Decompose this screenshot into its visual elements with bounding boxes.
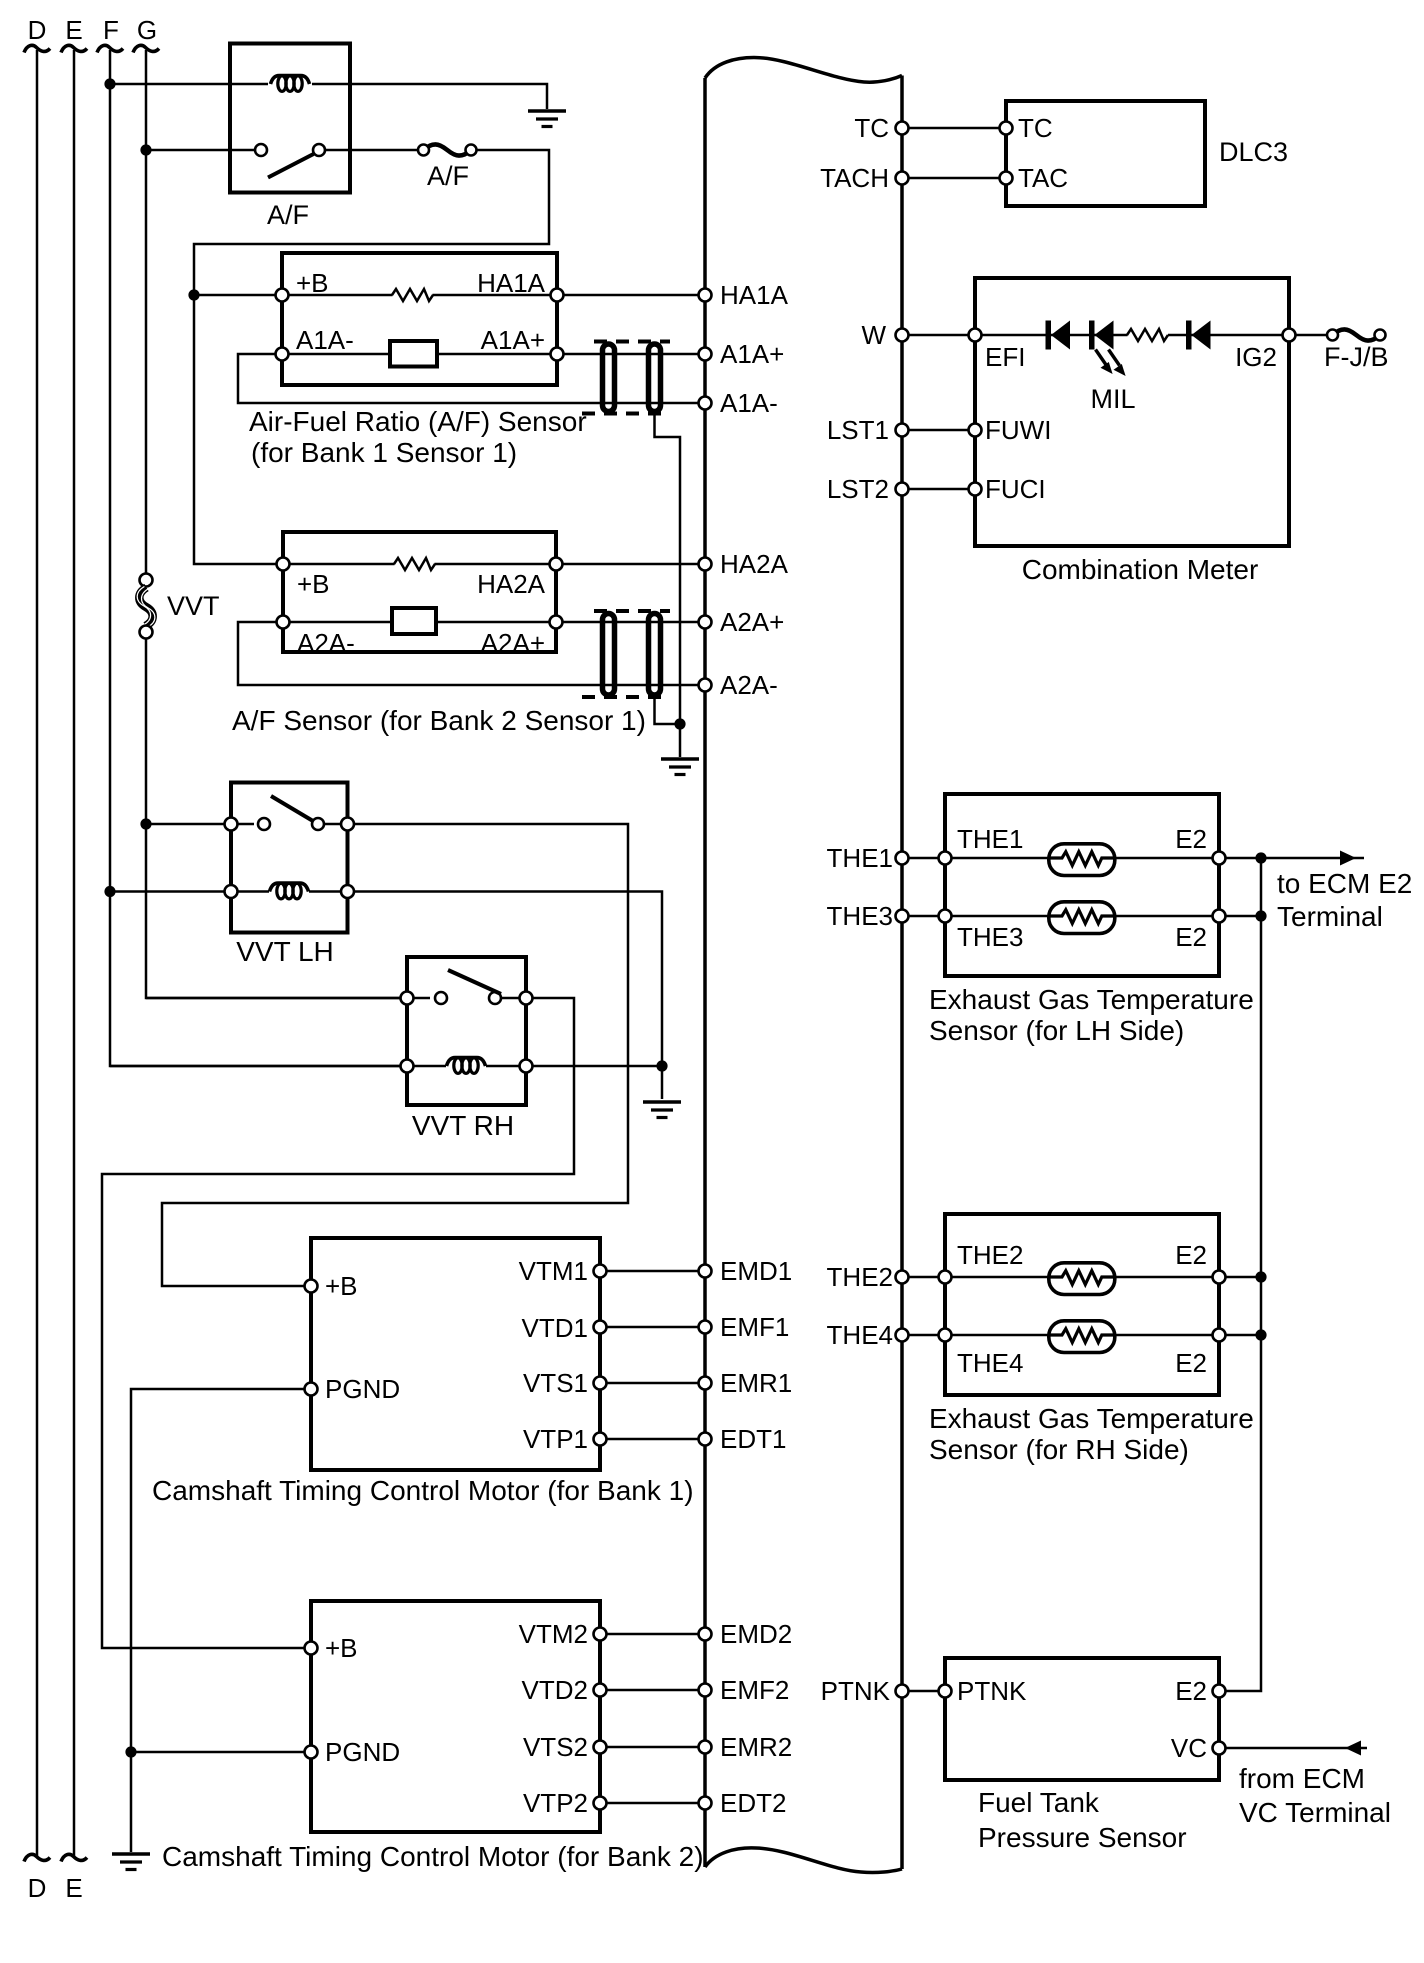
svg-text:G: G bbox=[137, 15, 157, 45]
motor1 PGND pin bbox=[305, 1383, 318, 1396]
svg-text:TACH: TACH bbox=[820, 163, 889, 193]
ground (motor PGND) bbox=[112, 1854, 150, 1870]
svg-text:EMR2: EMR2 bbox=[720, 1732, 792, 1762]
VVT break symbol on bus G bbox=[137, 574, 155, 639]
shield dashes bottom (bank1) bbox=[582, 412, 670, 416]
wire VVT LH switch to motor1 +B bbox=[162, 824, 628, 1286]
bank2 A2A- pin bbox=[277, 616, 290, 629]
wire bus D bbox=[36, 50, 39, 1857]
svg-text:EMD1: EMD1 bbox=[720, 1256, 792, 1286]
svg-text:PGND: PGND bbox=[325, 1374, 400, 1404]
DLC3 TC pin bbox=[1000, 122, 1013, 135]
bank2 heater resistor zigzag bbox=[394, 558, 435, 570]
svg-text:VTM1: VTM1 bbox=[519, 1256, 588, 1286]
RH sensor E2 pin (bottom) bbox=[1213, 1329, 1226, 1342]
VVT RH box bbox=[407, 957, 526, 1105]
wire THE2 to sensor bbox=[909, 1276, 946, 1279]
svg-text:THE3: THE3 bbox=[827, 901, 893, 931]
shield dashes top (bank2) bbox=[594, 609, 670, 613]
wire THE4 to sensor bbox=[909, 1334, 946, 1337]
svg-text:A1A+: A1A+ bbox=[720, 339, 784, 369]
wire VTP1 to EDT1 bbox=[607, 1438, 706, 1441]
break symbol on bus E (top) bbox=[61, 45, 87, 52]
wire VVT LH coil to right edge bbox=[309, 890, 342, 893]
wire VVT RH coil to ground junction bbox=[533, 1065, 663, 1068]
bank2 HA2A pin bbox=[550, 558, 563, 571]
ECM pin THE4 bbox=[896, 1329, 909, 1342]
wire RH E2 bottom to bus bbox=[1226, 1334, 1262, 1337]
shield dashes bottom (bank2) bbox=[582, 695, 670, 699]
RH THE4 wire bbox=[952, 1334, 1220, 1337]
fuel sensor PTNK pin bbox=[939, 1685, 952, 1698]
svg-text:Pressure Sensor: Pressure Sensor bbox=[978, 1822, 1187, 1853]
ECM pin W bbox=[896, 329, 909, 342]
meter resistor zigzag bbox=[1127, 329, 1168, 341]
svg-text:E2: E2 bbox=[1175, 1676, 1207, 1706]
wire LST1 to FUWI bbox=[909, 429, 976, 432]
svg-text:FUWI: FUWI bbox=[985, 415, 1051, 445]
svg-text:THE1: THE1 bbox=[827, 843, 893, 873]
svg-text:Fuel Tank: Fuel Tank bbox=[978, 1787, 1100, 1818]
break symbol on bus G (top) bbox=[133, 45, 159, 52]
svg-text:HA2A: HA2A bbox=[477, 569, 546, 599]
svg-text:F-J/B: F-J/B bbox=[1324, 342, 1389, 372]
wire G to relay switch bbox=[146, 149, 254, 152]
ECM pin HA1A bbox=[699, 289, 712, 302]
svg-text:HA2A: HA2A bbox=[720, 549, 789, 579]
junction RH E2 top bbox=[1255, 1271, 1266, 1282]
svg-text:A1A-: A1A- bbox=[720, 388, 778, 418]
svg-text:A/F: A/F bbox=[267, 200, 309, 230]
exhaust gas temperature sensor LH box bbox=[945, 794, 1219, 976]
VVT RH coil bbox=[447, 1058, 486, 1074]
ECM pin A2A- bbox=[699, 679, 712, 692]
VVT LH coil bbox=[270, 883, 309, 899]
wire TC to DLC3 bbox=[909, 127, 1007, 130]
wire E2 bottom to junction bbox=[1226, 915, 1262, 918]
break symbol on bus D (top) bbox=[24, 45, 50, 52]
junction VVT coils ground bbox=[656, 1060, 667, 1071]
bank1 HA1A pin bbox=[551, 289, 564, 302]
motor1 VTM1 pin bbox=[594, 1265, 607, 1278]
wire THE1 to sensor bbox=[909, 857, 946, 860]
ECM pin EMD2 bbox=[699, 1628, 712, 1641]
svg-text:A2A-: A2A- bbox=[297, 628, 355, 658]
motor2 PGND pin bbox=[305, 1746, 318, 1759]
svg-text:A/F Sensor (for Bank 2 Sensor: A/F Sensor (for Bank 2 Sensor 1) bbox=[232, 705, 646, 736]
wire bank2 HA2A to ECM bbox=[563, 563, 706, 566]
svg-text:A1A-: A1A- bbox=[296, 325, 354, 355]
motor1 +B pin bbox=[305, 1280, 318, 1293]
wire relay switch to fuse A/F bbox=[350, 149, 418, 152]
svg-text:VVT RH: VVT RH bbox=[412, 1110, 514, 1141]
LH sensor E2 pin (top) bbox=[1213, 852, 1226, 865]
wire VVT coils junction to ground bbox=[661, 1066, 664, 1099]
bank2 sensor cell box bbox=[392, 608, 436, 634]
ECM pin A1A- bbox=[699, 397, 712, 410]
VVT LH switch left edge pin bbox=[225, 818, 238, 831]
junction E2 bottom bbox=[1255, 910, 1266, 921]
diode D1 bbox=[1046, 321, 1071, 350]
ground (A/F sensor shields) bbox=[661, 759, 699, 775]
svg-text:THE4: THE4 bbox=[827, 1320, 893, 1350]
ECM pin EMR2 bbox=[699, 1741, 712, 1754]
svg-text:TC: TC bbox=[854, 113, 889, 143]
svg-text:VTD2: VTD2 bbox=[522, 1675, 588, 1705]
svg-text:to ECM E2: to ECM E2 bbox=[1277, 868, 1412, 899]
VVT LH switch right edge pin bbox=[341, 818, 354, 831]
svg-text:Terminal: Terminal bbox=[1277, 901, 1383, 932]
E2 bus vertical wire bbox=[1219, 858, 1261, 1691]
wire bank1 A1A- to ECM bbox=[238, 354, 705, 403]
ECM pin THE1 bbox=[896, 852, 909, 865]
meter FUCI pin bbox=[969, 483, 982, 496]
ECM right edge bbox=[900, 76, 904, 1870]
svg-text:VTS1: VTS1 bbox=[523, 1368, 588, 1398]
motor1 VTS1 pin bbox=[594, 1377, 607, 1390]
ECM pin EMD1 bbox=[699, 1265, 712, 1278]
svg-text:VTS2: VTS2 bbox=[523, 1732, 588, 1762]
shield loop right (bank1) bbox=[649, 344, 661, 412]
svg-text:VVT LH: VVT LH bbox=[236, 936, 334, 967]
ECM pin THE3 bbox=[896, 910, 909, 923]
ECM pin TACH bbox=[896, 172, 909, 185]
bank1 A1A+ pin bbox=[551, 348, 564, 361]
bank1 heater resistor wire bbox=[289, 294, 393, 297]
DLC3 TAC pin bbox=[1000, 172, 1013, 185]
svg-text:VVT: VVT bbox=[167, 591, 220, 621]
LH sensor THE3 pin bbox=[939, 910, 952, 923]
wire VTS2 to EMR2 bbox=[607, 1746, 706, 1749]
svg-text:E2: E2 bbox=[1175, 1240, 1207, 1270]
svg-text:PGND: PGND bbox=[325, 1737, 400, 1767]
ECM pin LST1 bbox=[896, 424, 909, 437]
wire +B feed to bank1 bbox=[194, 294, 282, 297]
junction G to VVT LH switch bbox=[140, 818, 151, 829]
svg-text:from ECM: from ECM bbox=[1239, 1763, 1365, 1794]
junction F to VVT LH coil bbox=[104, 886, 115, 897]
VVT RH switch right edge pin bbox=[520, 992, 533, 1005]
VVT LH coil right edge pin bbox=[341, 885, 354, 898]
wire bank1 HA1A to ECM bbox=[564, 294, 706, 297]
camshaft timing control motor bank2 box bbox=[311, 1601, 600, 1832]
svg-text:EMF1: EMF1 bbox=[720, 1312, 789, 1342]
svg-text:THE2: THE2 bbox=[827, 1262, 893, 1292]
A/F sensor bank1 box bbox=[282, 253, 557, 385]
svg-text:LST2: LST2 bbox=[827, 474, 889, 504]
VVT RH switch left edge pin bbox=[401, 992, 414, 1005]
wire VTM1 to EMD1 bbox=[607, 1270, 706, 1273]
wire bank2 A2A- to ECM bbox=[238, 622, 705, 685]
motor1 VTP1 pin bbox=[594, 1433, 607, 1446]
ECM left edge bbox=[703, 78, 707, 1867]
svg-text:VTP1: VTP1 bbox=[523, 1424, 588, 1454]
diode D3 bbox=[1186, 321, 1211, 350]
svg-text:MIL: MIL bbox=[1090, 384, 1135, 414]
bank2 sensor cell wire bbox=[290, 621, 557, 624]
ground (VVT coils) bbox=[643, 1102, 681, 1118]
combination meter box bbox=[975, 278, 1289, 546]
ECM pin A2A+ bbox=[699, 616, 712, 629]
svg-text:E2: E2 bbox=[1175, 824, 1207, 854]
LH THE3 thermistor bbox=[1048, 902, 1116, 934]
wire F to VVT RH coil bbox=[110, 1065, 446, 1068]
meter IG2 pin bbox=[1283, 329, 1296, 342]
wire bank2 A2A+ to ECM bbox=[563, 621, 706, 624]
wire W to EFI bbox=[909, 334, 976, 337]
svg-text:EMD2: EMD2 bbox=[720, 1619, 792, 1649]
bank2 A2A+ pin bbox=[550, 616, 563, 629]
meter FUWI pin bbox=[969, 424, 982, 437]
wire IG2 to fuse F-J/B bbox=[1296, 334, 1328, 337]
ground (relay coil) bbox=[528, 111, 566, 127]
bank1 sensor cell wire bbox=[289, 353, 558, 356]
RH sensor E2 pin (top) bbox=[1213, 1271, 1226, 1284]
wire LST2 to FUCI bbox=[909, 488, 976, 491]
svg-text:Air-Fuel Ratio (A/F) Sensor: Air-Fuel Ratio (A/F) Sensor bbox=[249, 406, 587, 437]
svg-text:F: F bbox=[103, 15, 119, 45]
wire motor1 PGND to ground bus bbox=[131, 1389, 305, 1752]
ECM pin EDT1 bbox=[699, 1433, 712, 1446]
junction F to relay coil bbox=[104, 78, 115, 89]
junction G to relay switch bbox=[140, 144, 151, 155]
wire junction to ground bbox=[679, 724, 682, 757]
shield loop left (bank2) bbox=[603, 614, 615, 696]
svg-text:IG2: IG2 bbox=[1235, 342, 1277, 372]
svg-text:A2A+: A2A+ bbox=[720, 607, 784, 637]
svg-text:TC: TC bbox=[1018, 113, 1053, 143]
RH THE4 thermistor bbox=[1048, 1321, 1116, 1353]
break symbol on bus E (bottom) bbox=[61, 1854, 87, 1861]
wire bank1 A1A+ to ECM bbox=[564, 353, 706, 356]
svg-text:Exhaust Gas Temperature: Exhaust Gas Temperature bbox=[929, 1403, 1254, 1434]
svg-text:D: D bbox=[28, 15, 47, 45]
ECM pin EMF1 bbox=[699, 1321, 712, 1334]
wire EFI to IG2 chain bbox=[982, 334, 1128, 337]
LH sensor E2 pin (bottom) bbox=[1213, 910, 1226, 923]
ECM pin A1A+ bbox=[699, 348, 712, 361]
wire VVT RH coil to right edge bbox=[486, 1065, 520, 1068]
wire G to VVT RH switch bbox=[146, 997, 430, 1000]
motor2 VTD2 pin bbox=[594, 1684, 607, 1697]
wire bus G (lower part) bbox=[146, 639, 407, 999]
wire RH E2 top to bus bbox=[1226, 1276, 1262, 1279]
wire motor2 PGND to ground bus bbox=[131, 1751, 305, 1754]
junction RH E2 bottom bbox=[1255, 1329, 1266, 1340]
VVT LH box bbox=[231, 783, 348, 933]
svg-text:+B: +B bbox=[296, 268, 329, 298]
motor2 VTP2 pin bbox=[594, 1797, 607, 1810]
bank2 heater resistor wire bbox=[290, 563, 395, 566]
bank2 +B pin bbox=[277, 558, 290, 571]
svg-text:Sensor (for RH Side): Sensor (for RH Side) bbox=[929, 1434, 1189, 1465]
svg-text:W: W bbox=[861, 320, 886, 350]
svg-text:PTNK: PTNK bbox=[821, 1676, 891, 1706]
wire VTM2 to EMD2 bbox=[607, 1633, 706, 1636]
motor2 VTS2 pin bbox=[594, 1741, 607, 1754]
wire bank1 shield to ground trace bbox=[655, 415, 681, 725]
svg-text:FUCI: FUCI bbox=[985, 474, 1046, 504]
relay A/F box bbox=[230, 44, 350, 193]
ECM pin HA2A bbox=[699, 558, 712, 571]
svg-text:EDT2: EDT2 bbox=[720, 1788, 786, 1818]
svg-text:A1A+: A1A+ bbox=[481, 325, 545, 355]
wire VTD1 to EMF1 bbox=[607, 1326, 706, 1329]
wire VTD2 to EMF2 bbox=[607, 1689, 706, 1692]
VVT RH coil left edge pin bbox=[401, 1060, 414, 1073]
bank1 A1A- pin bbox=[276, 348, 289, 361]
svg-text:D: D bbox=[28, 1873, 47, 1903]
ECM pin EMR1 bbox=[699, 1377, 712, 1390]
wire PTNK to sensor bbox=[909, 1690, 946, 1693]
motor2 VTM2 pin bbox=[594, 1628, 607, 1641]
fuel sensor VC pin bbox=[1213, 1742, 1226, 1755]
fuse F-J/B bbox=[1327, 329, 1386, 340]
wire bus G (upper part) bbox=[145, 50, 148, 574]
wire bus F bbox=[110, 50, 407, 1066]
svg-text:E2: E2 bbox=[1175, 1348, 1207, 1378]
svg-text:A2A+: A2A+ bbox=[481, 628, 545, 658]
RH sensor THE4 pin bbox=[939, 1329, 952, 1342]
svg-text:THE3: THE3 bbox=[957, 922, 1023, 952]
svg-text:VC: VC bbox=[1171, 1733, 1207, 1763]
bank1 sensor cell box bbox=[390, 341, 437, 367]
wire VVT LH coil to ground junction bbox=[354, 892, 662, 1067]
svg-text:+B: +B bbox=[325, 1633, 358, 1663]
svg-text:E: E bbox=[65, 15, 82, 45]
svg-text:EMR1: EMR1 bbox=[720, 1368, 792, 1398]
svg-text:+B: +B bbox=[297, 569, 330, 599]
A/F sensor bank2 box bbox=[283, 532, 556, 652]
svg-text:A2A-: A2A- bbox=[720, 670, 778, 700]
VVT LH switch bbox=[258, 796, 342, 830]
ECM pin LST2 bbox=[896, 483, 909, 496]
svg-text:Camshaft Timing Control Motor: Camshaft Timing Control Motor (for Bank … bbox=[162, 1841, 704, 1872]
motor1 VTD1 pin bbox=[594, 1321, 607, 1334]
bank1 heater resistor zigzag bbox=[392, 289, 433, 301]
svg-text:VTD1: VTD1 bbox=[522, 1313, 588, 1343]
svg-text:TAC: TAC bbox=[1018, 163, 1068, 193]
wire F to VVT LH coil bbox=[110, 890, 269, 893]
LH THE3 wire bbox=[952, 915, 1220, 918]
RH THE2 thermistor bbox=[1048, 1263, 1116, 1295]
wire +B feed down to bank2 bbox=[194, 295, 283, 564]
relay A/F coil bbox=[271, 76, 310, 92]
MIL LED arrows bbox=[1096, 350, 1126, 377]
fuse A/F bbox=[418, 144, 477, 155]
junction +B feed bank1 bbox=[188, 289, 199, 300]
wire bus E bbox=[73, 50, 76, 1857]
svg-text:Camshaft Timing Control Motor: Camshaft Timing Control Motor (for Bank … bbox=[152, 1475, 694, 1506]
svg-text:VTM2: VTM2 bbox=[519, 1619, 588, 1649]
ECM pin TC bbox=[896, 122, 909, 135]
fuel sensor E2 pin bbox=[1213, 1685, 1226, 1698]
svg-text:A/F: A/F bbox=[427, 161, 469, 191]
svg-text:Sensor (for LH Side): Sensor (for LH Side) bbox=[929, 1015, 1184, 1046]
RH sensor THE2 pin bbox=[939, 1271, 952, 1284]
svg-text:HA1A: HA1A bbox=[720, 280, 789, 310]
wire VVT RH switch to motor2 +B bbox=[102, 998, 574, 1648]
shield dashes top (bank1) bbox=[594, 340, 670, 344]
ECM pin PTNK bbox=[896, 1685, 909, 1698]
svg-text:PTNK: PTNK bbox=[957, 1676, 1027, 1706]
DLC3 box bbox=[1006, 101, 1205, 206]
svg-text:HA1A: HA1A bbox=[477, 268, 546, 298]
LH THE1 thermistor bbox=[1048, 844, 1116, 876]
svg-text:EFI: EFI bbox=[985, 342, 1025, 372]
svg-text:VC Terminal: VC Terminal bbox=[1239, 1797, 1391, 1828]
svg-text:E2: E2 bbox=[1175, 922, 1207, 952]
shield loop right (bank2) bbox=[649, 614, 661, 696]
wire VTP2 to EDT2 bbox=[607, 1802, 706, 1805]
wire F to relay coil bbox=[110, 83, 268, 86]
wire relay coil to ground bbox=[312, 84, 547, 109]
svg-text:THE1: THE1 bbox=[957, 824, 1023, 854]
svg-text:EDT1: EDT1 bbox=[720, 1424, 786, 1454]
svg-text:THE2: THE2 bbox=[957, 1240, 1023, 1270]
LED diode D2 (MIL) bbox=[1089, 321, 1114, 350]
wire E2 top to junction bbox=[1226, 857, 1262, 860]
break symbol on bus F (top) bbox=[97, 45, 123, 52]
VVT RH switch bbox=[435, 970, 520, 1004]
fuel tank pressure sensor box bbox=[945, 1658, 1219, 1780]
exhaust gas temperature sensor RH box bbox=[945, 1214, 1219, 1395]
meter EFI pin bbox=[969, 329, 982, 342]
ECM pin EDT2 bbox=[699, 1797, 712, 1810]
camshaft timing control motor bank1 box bbox=[311, 1238, 600, 1470]
svg-text:Exhaust Gas Temperature: Exhaust Gas Temperature bbox=[929, 984, 1254, 1015]
wire TACH to DLC3 bbox=[909, 177, 1007, 180]
LH sensor THE1 pin bbox=[939, 852, 952, 865]
svg-text:E: E bbox=[65, 1873, 82, 1903]
wire VC from ECM VC terminal bbox=[1226, 1741, 1368, 1756]
arrow to ECM E2 terminal bbox=[1261, 851, 1364, 866]
svg-text:+B: +B bbox=[325, 1271, 358, 1301]
RH THE2 wire bbox=[952, 1276, 1220, 1279]
break symbol on bus D (bottom) bbox=[24, 1854, 50, 1861]
shield loop left (bank1) bbox=[603, 344, 615, 412]
LH THE1 wire bbox=[952, 857, 1220, 860]
svg-text:VTP2: VTP2 bbox=[523, 1788, 588, 1818]
ECM bottom torn edge bbox=[705, 1848, 902, 1873]
svg-text:(for Bank 1 Sensor 1): (for Bank 1 Sensor 1) bbox=[251, 437, 517, 468]
junction E2 top bbox=[1255, 852, 1266, 863]
VVT RH coil right edge pin bbox=[520, 1060, 533, 1073]
VVT LH coil left edge pin bbox=[225, 885, 238, 898]
ECM pin EMF2 bbox=[699, 1684, 712, 1697]
junction PGND bus bbox=[125, 1746, 136, 1757]
svg-text:DLC3: DLC3 bbox=[1219, 137, 1288, 167]
ECM pin THE2 bbox=[896, 1271, 909, 1284]
relay A/F switch bbox=[255, 144, 350, 178]
svg-text:Combination Meter: Combination Meter bbox=[1022, 554, 1259, 585]
bank1 +B pin bbox=[276, 289, 289, 302]
wire bank2 shield to ground junction bbox=[655, 698, 681, 725]
motor2 +B pin bbox=[305, 1642, 318, 1655]
svg-text:THE4: THE4 bbox=[957, 1348, 1023, 1378]
junction shield grounds bbox=[674, 718, 685, 729]
svg-text:LST1: LST1 bbox=[827, 415, 889, 445]
wire VTS1 to EMR1 bbox=[607, 1382, 706, 1385]
ECM top torn edge bbox=[705, 58, 902, 83]
wire G to VVT LH switch bbox=[146, 823, 254, 826]
wire THE3 to sensor bbox=[909, 915, 946, 918]
svg-text:EMF2: EMF2 bbox=[720, 1675, 789, 1705]
wire PGND junction to ground bbox=[130, 1752, 133, 1852]
wire fuse to +B feed bbox=[194, 150, 549, 295]
